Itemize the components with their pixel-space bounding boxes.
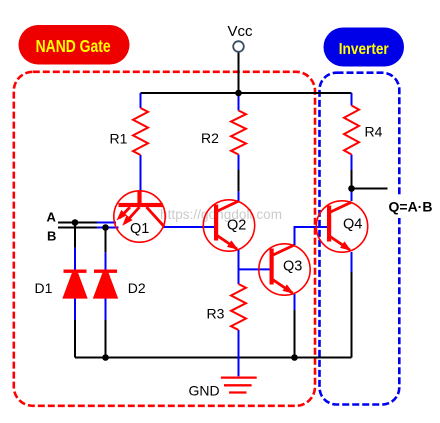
svg-text:R3: R3 (207, 306, 225, 322)
wire Vcc lead (238, 52, 240, 93)
wire node to Q3 base (239, 268, 272, 270)
lead D2 anode (105, 299, 107, 321)
lead R1 top (140, 93, 142, 108)
svg-text:Q=A·B: Q=A·B (389, 199, 433, 215)
diode D1 (35, 270, 88, 299)
junction Vcc rail (235, 90, 242, 97)
Vcc terminal (228, 23, 254, 52)
svg-text:R2: R2 (201, 130, 219, 146)
wire Q2 emitter to R3 / node to Q3 base (238, 250, 240, 284)
svg-text:NAND Gate: NAND Gate (36, 36, 111, 56)
transistor Q2 (203, 200, 254, 251)
lead D2 cathode (105, 252, 107, 269)
svg-text:B: B (47, 228, 56, 243)
lead D1 anode (74, 299, 76, 321)
wire Q3 emitter to bottom rail (294, 310, 296, 358)
lead R3 bottom to GND (238, 330, 240, 376)
Inverter title label (324, 28, 405, 67)
lead R4 bottom (351, 155, 353, 171)
lead Q3 emitter (294, 294, 296, 310)
junction D2 ground rail (102, 354, 109, 361)
svg-text:Q4: Q4 (343, 217, 362, 233)
svg-text:Inverter: Inverter (339, 41, 389, 58)
svg-text:Vcc: Vcc (228, 23, 254, 40)
wire bottom rail (75, 357, 352, 359)
lead R4 top (351, 93, 353, 106)
resistor R4 (344, 106, 383, 155)
svg-text:GND: GND (189, 383, 220, 399)
svg-text:Q2: Q2 (227, 218, 246, 234)
wire Q1 collector to Q2 base (164, 226, 217, 228)
svg-text:Q3: Q3 (283, 259, 302, 275)
transistor Q4 (316, 201, 367, 252)
resistor R3 (207, 284, 247, 330)
NAND gate boundary box (14, 72, 315, 406)
svg-text:D2: D2 (128, 280, 146, 296)
wire top rail (141, 92, 352, 94)
lead R1 bottom to Q1 base (140, 155, 142, 191)
wire input A (58, 222, 97, 224)
NAND Gate title label (19, 25, 130, 65)
lead input A to Q1 emitter 1 (97, 222, 116, 224)
wire B node to D2 (105, 228, 107, 253)
wire R4 to output node (351, 170, 353, 189)
resistor R1 (110, 108, 149, 155)
svg-text:D1: D1 (35, 280, 53, 296)
lead D1 cathode (74, 248, 76, 270)
lead R2 top (238, 93, 240, 111)
wire D2 to bottom rail (105, 320, 107, 358)
junction Q3 emitter rail (291, 354, 298, 361)
wire A node to D1 (74, 223, 76, 248)
lead Q4 collector (351, 189, 353, 202)
junction output node (348, 185, 355, 192)
resistor R2 (201, 111, 246, 155)
wire Q3 collector to Q4 base (295, 227, 330, 245)
Inverter boundary box (320, 73, 400, 405)
wire R2 to Q2 collector (238, 170, 240, 191)
transistor Q3 (259, 244, 310, 295)
junction node A (72, 219, 79, 226)
wire output line (352, 188, 388, 190)
lead Q2 collector (238, 191, 240, 201)
wire Q4 emitter to bottom rail (351, 272, 353, 358)
node Q output label (386, 196, 434, 218)
svg-text:A: A (47, 210, 57, 225)
wire input B (58, 227, 97, 229)
junction node B (102, 224, 109, 231)
svg-text:R4: R4 (365, 124, 383, 140)
svg-text:R1: R1 (110, 131, 128, 147)
lead R2 bottom (238, 155, 240, 171)
transistor Q1 (dual emitter input) (114, 191, 165, 242)
wire D1 to bottom rail (74, 320, 76, 358)
svg-text:Q1: Q1 (130, 221, 149, 237)
diode D2 (93, 270, 146, 299)
lead Q4 emitter (351, 252, 353, 272)
lead input B to Q1 emitter 2 (97, 227, 119, 229)
ground (189, 378, 257, 399)
